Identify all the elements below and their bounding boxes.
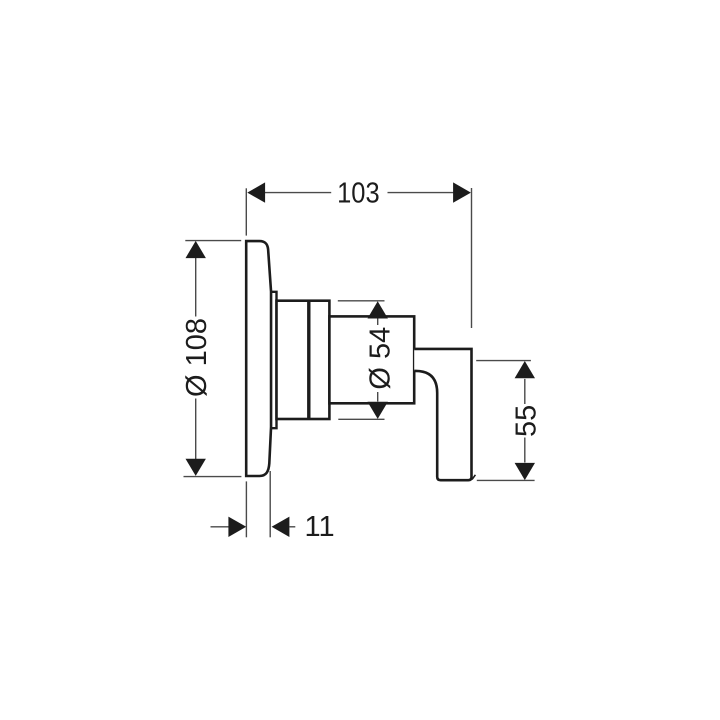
extension line top [185, 240, 241, 242]
lever handle [414, 349, 471, 480]
sleeve cylinder (Ø54) [277, 301, 330, 419]
collar ring behind sleeve [271, 292, 276, 428]
arrowhead up [368, 301, 388, 318]
arrow tail left [211, 526, 229, 528]
dimension 55 (right) [476, 361, 534, 481]
arrow tail right [290, 526, 296, 528]
arrowhead down [368, 402, 388, 419]
extension line top [338, 300, 385, 302]
dimension line stems [195, 257, 197, 316]
arrowhead up [515, 361, 535, 378]
svg-text:11: 11 [305, 511, 335, 543]
svg-text:55: 55 [511, 405, 543, 437]
dimension line stems [377, 319, 379, 326]
sleeve separation line [307, 301, 310, 419]
arrowhead pointing left [272, 517, 290, 537]
lever corner tick [472, 475, 475, 480]
svg-text:103: 103 [337, 177, 380, 209]
dimension 103 (top) [246, 188, 471, 328]
escutcheon plate (side view, Ø108) [246, 241, 271, 476]
handle hub cylinder [329, 316, 414, 403]
dimension line stems [524, 379, 526, 404]
dimension Ø54 (middle) [338, 301, 385, 420]
arrowhead left [247, 182, 265, 202]
arrowhead pointing right [228, 517, 246, 537]
dimension Ø108 (left) [184, 241, 242, 477]
extension line left (wall plane) [245, 188, 247, 235]
svg-text:Ø 54: Ø 54 [364, 327, 396, 390]
extension line top (axis) [476, 360, 531, 362]
dimension 11 (bottom, plate thickness) [211, 471, 296, 537]
extension line bottom [477, 479, 535, 481]
extension line right (lever front) [471, 188, 473, 328]
arrowhead right [453, 182, 471, 202]
dimension line segments [265, 192, 332, 194]
extension line bottom [338, 418, 384, 420]
svg-text:Ø 108: Ø 108 [181, 318, 213, 397]
extension line left [245, 481, 247, 537]
extension line right [269, 471, 271, 537]
arrowhead down [186, 459, 206, 476]
extension line bottom [184, 476, 242, 478]
arrowhead down [515, 463, 535, 480]
arrowhead up [186, 241, 206, 258]
